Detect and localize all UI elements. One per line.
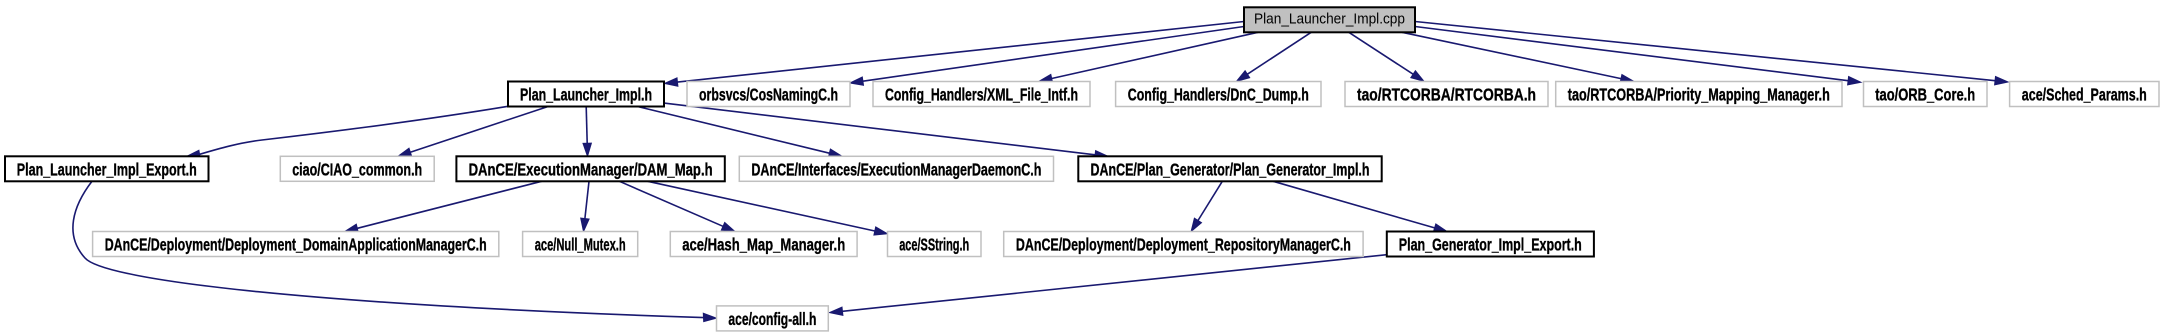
svg-text:Plan_Launcher_Impl.cpp: Plan_Launcher_Impl.cpp — [1254, 12, 1405, 28]
svg-text:DAnCE/Plan_Generator/Plan_Gene: DAnCE/Plan_Generator/Plan_Generator_Impl… — [1091, 159, 1370, 179]
svg-text:tao/ORB_Core.h: tao/ORB_Core.h — [1875, 85, 1975, 105]
svg-text:tao/RTCORBA/Priority_Mapping_M: tao/RTCORBA/Priority_Mapping_Manager.h — [1568, 85, 1830, 105]
edge Plan_Launcher_Impl.cpp to Plan_Launcher_Impl.h — [665, 22, 1245, 87]
svg-text:ace/Sched_Params.h: ace/Sched_Params.h — [2022, 85, 2147, 105]
svg-text:tao/RTCORBA/RTCORBA.h: tao/RTCORBA/RTCORBA.h — [1357, 85, 1536, 105]
node tao/ORB_Core.h — [1864, 82, 1988, 107]
node Config_Handlers/DnC_Dump.h — [1116, 82, 1321, 107]
node Plan_Launcher_Impl.cpp (main) — [1244, 7, 1415, 32]
node DAnCE/Deployment/Deployment_DomainApplicationManagerC.h — [93, 232, 499, 257]
edge DAM_Map.h to ace/SString.h — [648, 181, 888, 235]
edge Plan_Launcher_Impl.cpp to Config_Handlers/DnC_Dump.h — [1237, 32, 1312, 81]
svg-text:orbsvcs/CosNamingC.h: orbsvcs/CosNamingC.h — [699, 85, 838, 105]
node tao/RTCORBA/RTCORBA.h — [1345, 82, 1548, 107]
node DAnCE/Plan_Generator/Plan_Generator_Impl.h — [1078, 156, 1381, 181]
node ace/SString.h — [888, 232, 982, 257]
edge Plan_Launcher_Impl_Export.h to ace/config-all.h (curved) — [73, 181, 717, 321]
node DAnCE/Interfaces/ExecutionManagerDaemonC.h — [739, 156, 1053, 181]
edge Plan_Launcher_Impl.h to DAnCE/Interfaces/ExecutionManagerDaemonC.h — [638, 107, 843, 158]
svg-text:DAnCE/ExecutionManager/DAM_Map: DAnCE/ExecutionManager/DAM_Map.h — [469, 159, 713, 179]
node tao/RTCORBA/Priority_Mapping_Manager.h — [1556, 82, 1842, 107]
node orbsvcs/CosNamingC.h — [687, 82, 850, 107]
edge Plan_Launcher_Impl.h to DAnCE/ExecutionManager/DAM_Map.h — [583, 107, 591, 157]
edge Plan_Generator_Impl_Export.h to ace/config-all.h — [830, 255, 1387, 316]
node Plan_Launcher_Impl_Export.h — [5, 156, 209, 181]
node Plan_Launcher_Impl.h — [508, 82, 664, 107]
node ace/config-all.h — [717, 306, 829, 331]
node ace/Hash_Map_Manager.h — [670, 232, 857, 257]
svg-text:Plan_Generator_Impl_Export.h: Plan_Generator_Impl_Export.h — [1399, 235, 1582, 255]
edge DAM_Map.h to ace/Null_Mutex.h — [581, 181, 589, 231]
node DAnCE/ExecutionManager/DAM_Map.h — [456, 156, 724, 181]
node ace/Sched_Params.h — [2010, 82, 2159, 107]
edge Plan_Generator_Impl.h to Deployment_RepositoryManagerC.h — [1191, 181, 1222, 231]
svg-text:Plan_Launcher_Impl.h: Plan_Launcher_Impl.h — [520, 85, 652, 105]
edge Plan_Launcher_Impl.cpp to Config_Handlers/XML_File_Intf.h — [1039, 32, 1258, 82]
edge Plan_Launcher_Impl.cpp to ace/Sched_Params.h — [1415, 22, 2008, 85]
svg-text:Config_Handlers/XML_File_Intf.: Config_Handlers/XML_File_Intf.h — [885, 85, 1078, 105]
svg-text:DAnCE/Deployment/Deployment_Do: DAnCE/Deployment/Deployment_DomainApplic… — [105, 235, 487, 255]
svg-text:ace/Hash_Map_Manager.h: ace/Hash_Map_Manager.h — [682, 235, 845, 255]
svg-text:ace/SString.h: ace/SString.h — [899, 235, 969, 255]
edge DAM_Map.h to Deployment_DomainApplicationManagerC.h — [345, 181, 542, 232]
edge Plan_Launcher_Impl.cpp to tao/ORB_Core.h — [1415, 27, 1861, 85]
node ace/Null_Mutex.h — [523, 232, 638, 257]
node DAnCE/Deployment/Deployment_RepositoryManagerC.h — [1004, 232, 1363, 257]
edge DAM_Map.h to ace/Hash_Map_Manager.h — [619, 181, 735, 231]
edge Plan_Launcher_Impl.cpp to tao/RTCORBA/Priority_Mapping_Manager.h — [1402, 32, 1634, 82]
svg-text:ciao/CIAO_common.h: ciao/CIAO_common.h — [292, 159, 422, 179]
svg-text:ace/Null_Mutex.h: ace/Null_Mutex.h — [535, 235, 626, 255]
node Plan_Generator_Impl_Export.h — [1387, 232, 1594, 257]
svg-text:Config_Handlers/DnC_Dump.h: Config_Handlers/DnC_Dump.h — [1128, 85, 1309, 105]
node Config_Handlers/XML_File_Intf.h — [873, 82, 1090, 107]
svg-text:DAnCE/Deployment/Deployment_Re: DAnCE/Deployment/Deployment_RepositoryMa… — [1016, 235, 1351, 255]
svg-text:Plan_Launcher_Impl_Export.h: Plan_Launcher_Impl_Export.h — [17, 159, 197, 179]
edge Plan_Generator_Impl.h to Plan_Generator_Impl_Export.h — [1273, 181, 1447, 232]
edge Plan_Launcher_Impl.cpp to tao/RTCORBA/RTCORBA.h — [1349, 32, 1424, 81]
edge Plan_Launcher_Impl.cpp to orbsvcs/CosNamingC.h — [850, 27, 1244, 86]
node ciao/CIAO_common.h — [280, 156, 434, 181]
edge Plan_Launcher_Impl.h to DAnCE/Plan_Generator/Plan_Generator_Impl.h — [664, 103, 1108, 159]
edge Plan_Launcher_Impl.h to ciao/CIAO_common.h — [398, 107, 548, 157]
edge Plan_Launcher_Impl.h to Plan_Launcher_Impl_Export.h (curved) — [187, 106, 508, 158]
svg-text:DAnCE/Interfaces/ExecutionMana: DAnCE/Interfaces/ExecutionManagerDaemonC… — [751, 159, 1041, 179]
svg-text:ace/config-all.h: ace/config-all.h — [728, 309, 816, 329]
